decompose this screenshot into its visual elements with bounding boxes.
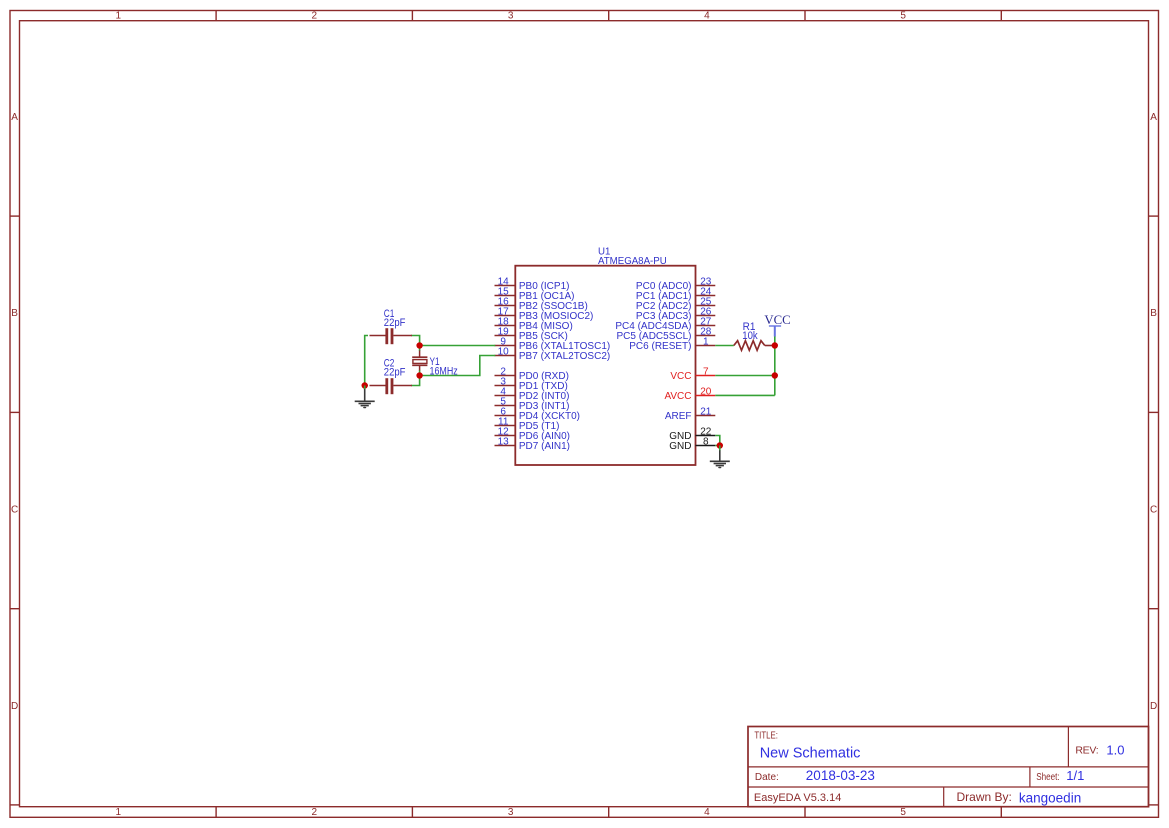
wire U1 pin20 AVCC — [715, 394, 775, 396]
svg-text:PD7 (AIN1): PD7 (AIN1) — [519, 441, 570, 452]
junction node XTAL1 — [416, 342, 422, 348]
svg-text:AVCC: AVCC — [664, 391, 691, 402]
U1 pin 26 PC3 (ADC3) — [636, 307, 715, 323]
ground (U1 pins 22/8) — [710, 446, 730, 469]
wire left rail C1-C2 — [365, 336, 368, 386]
U1 pin 16 PB2 (SSOC1B) — [495, 297, 588, 313]
svg-text:8: 8 — [703, 437, 709, 448]
ground (crystal caps) — [355, 386, 375, 409]
U1 pin 21 AREF — [665, 407, 715, 423]
svg-text:TITLE:: TITLE: — [754, 731, 778, 742]
U1 pin 8 GND — [669, 437, 715, 453]
U1 pin 7 VCC — [670, 367, 715, 383]
svg-text:2018-03-23: 2018-03-23 — [806, 768, 875, 783]
svg-text:D: D — [1150, 701, 1157, 712]
U1 pin 5 PD3 (INT1) — [495, 397, 570, 413]
label R1 10k — [742, 321, 758, 342]
svg-text:10: 10 — [498, 347, 510, 358]
svg-text:10k: 10k — [742, 330, 758, 342]
svg-text:ATMEGA8A-PU: ATMEGA8A-PU — [598, 256, 667, 267]
svg-text:16MHz: 16MHz — [430, 365, 458, 377]
U1 pin 22 GND — [669, 427, 715, 443]
svg-text:A: A — [11, 112, 18, 123]
junction ground rail — [362, 382, 368, 388]
svg-text:5: 5 — [900, 807, 906, 818]
svg-text:C: C — [11, 505, 18, 516]
U1 pin 23 PC0 (ADC0) — [636, 277, 715, 293]
svg-text:C: C — [1150, 505, 1157, 516]
U1 pin 13 PD7 (AIN1) — [495, 437, 571, 453]
svg-text:Sheet:: Sheet: — [1036, 772, 1060, 783]
svg-text:13: 13 — [498, 437, 510, 448]
wire C1 right to XTAL1 node — [411, 336, 420, 346]
power symbol VCC — [764, 313, 790, 336]
U1 pin 25 PC2 (ADC2) — [636, 297, 715, 313]
svg-text:21: 21 — [700, 407, 712, 418]
wire U1 pin8 to GND node — [715, 445, 720, 447]
svg-text:A: A — [1150, 112, 1157, 123]
U1 pin 3 PD1 (TXD) — [495, 377, 568, 393]
svg-text:D: D — [11, 701, 18, 712]
svg-text:New Schematic: New Schematic — [760, 745, 861, 761]
U1 pin 18 PB4 (MISO) — [495, 317, 573, 333]
svg-text:PB7 (XTAL2TOSC2): PB7 (XTAL2TOSC2) — [519, 351, 610, 362]
wire net XTAL2 to U1 pin 10 — [420, 356, 496, 376]
svg-text:1: 1 — [116, 10, 122, 21]
svg-text:Date:: Date: — [755, 772, 779, 783]
wire C2 right to XTAL2 node — [411, 376, 420, 386]
U1 pin 19 PB5 (SCK) — [495, 327, 568, 343]
label Y1 16MHz — [430, 356, 458, 377]
U1 pin 6 PD4 (XCKT0) — [495, 407, 581, 423]
svg-text:B: B — [1150, 308, 1157, 319]
svg-text:20: 20 — [700, 387, 712, 398]
svg-text:5: 5 — [900, 10, 906, 21]
U1 pin 12 PD6 (AIN0) — [495, 427, 571, 443]
wire U1 pin1 to R1 — [715, 345, 734, 347]
U1 pin 28 PC5 (ADC5SCL) — [616, 327, 715, 343]
label C1 22pF — [384, 308, 406, 329]
U1 pin 17 PB3 (MOSIOC2) — [495, 307, 594, 323]
svg-text:VCC: VCC — [764, 313, 790, 327]
svg-text:1.0: 1.0 — [1106, 742, 1124, 757]
junction GND node — [717, 442, 723, 448]
U1 pin 4 PD2 (INT0) — [495, 387, 570, 403]
svg-text:2: 2 — [312, 10, 318, 21]
U1 pin 27 PC4 (ADC4SDA) — [615, 317, 715, 333]
wire net XTAL1 to U1 pin 9 — [420, 345, 496, 347]
svg-text:22pF: 22pF — [384, 366, 406, 378]
wire U1 pin22 to GND node — [715, 436, 720, 446]
svg-text:4: 4 — [704, 807, 710, 818]
svg-text:3: 3 — [508, 10, 514, 21]
U1 pin 20 AVCC — [664, 387, 715, 403]
wire U1 pin7 VCC — [715, 375, 775, 377]
U1 pin 2 PD0 (RXD) — [495, 367, 569, 383]
capacitor C2 — [370, 378, 413, 394]
svg-text:GND: GND — [669, 441, 691, 452]
resistor R1 — [734, 341, 775, 351]
U1 pin 15 PB1 (OC1A) — [495, 287, 575, 303]
svg-text:22pF: 22pF — [384, 317, 406, 329]
svg-text:1: 1 — [116, 807, 122, 818]
svg-text:1/1: 1/1 — [1066, 768, 1084, 783]
capacitor C1 — [370, 328, 413, 344]
svg-text:REV:: REV: — [1075, 745, 1098, 757]
U1 pin 9 PB6 (XTAL1TOSC1) — [495, 337, 611, 353]
svg-text:Drawn By:: Drawn By: — [957, 790, 1012, 804]
junction node XTAL2 — [416, 372, 422, 378]
junction pin7-VCC — [772, 372, 778, 378]
svg-text:B: B — [11, 308, 18, 319]
svg-text:3: 3 — [508, 807, 514, 818]
U1 pin 10 PB7 (XTAL2TOSC2) — [495, 347, 611, 363]
svg-text:7: 7 — [703, 367, 709, 378]
U1 pin 24 PC1 (ADC1) — [636, 287, 715, 303]
svg-text:PC6 (RESET): PC6 (RESET) — [629, 341, 691, 352]
svg-text:EasyEDA V5.3.14: EasyEDA V5.3.14 — [754, 792, 841, 804]
svg-text:1: 1 — [703, 337, 709, 348]
svg-text:AREF: AREF — [665, 411, 692, 422]
U1 pin 14 PB0 (ICP1) — [495, 277, 570, 293]
U1 pin 1 PC6 (RESET) — [629, 337, 715, 353]
wire VCC rail vertical — [774, 336, 776, 395]
svg-text:kangoedin: kangoedin — [1019, 790, 1081, 805]
svg-text:2: 2 — [312, 807, 318, 818]
crystal Y1 — [412, 346, 427, 376]
label C2 22pF — [384, 357, 406, 378]
IC U1 ATMEGA8A-PU — [515, 246, 695, 465]
svg-text:4: 4 — [704, 10, 710, 21]
title block — [748, 727, 1149, 807]
U1 pin 11 PD5 (T1) — [495, 417, 560, 433]
junction R1-VCC — [772, 342, 778, 348]
svg-text:VCC: VCC — [670, 371, 691, 382]
